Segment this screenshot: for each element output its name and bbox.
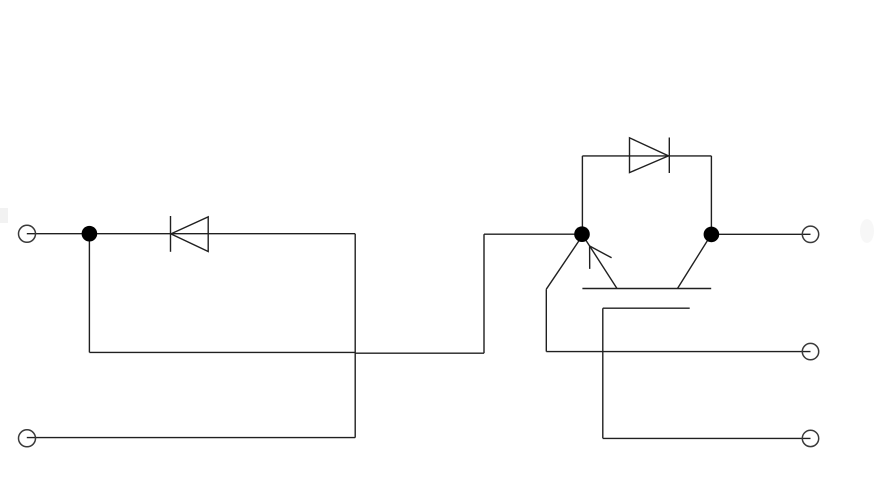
wire: top-left terminal to corner (through J1 and D1) [27, 233, 355, 235]
terminal T2 bottom-left [19, 430, 36, 447]
transistor Q1 emitter arrow [589, 246, 611, 269]
wire: lower horizontal right of crossing [355, 352, 484, 354]
wire: emitter diagonal out of J2 [546, 239, 580, 290]
terminal T4 right-middle [802, 343, 818, 359]
wire: J1 down [88, 234, 90, 353]
wire: up to IGBT emitter node [483, 234, 485, 353]
node J1 [82, 226, 98, 242]
transistor Q1 collector diagonal [678, 237, 711, 289]
wire: gate to right-bottom terminal [603, 437, 811, 439]
node J2 [574, 226, 590, 242]
diode D2 triangle [630, 138, 669, 173]
wire: right vertical of left loop [354, 234, 356, 438]
wire: emitter to right-middle terminal [546, 351, 810, 353]
wire: J2 up to top diode loop [581, 156, 583, 234]
scan smudge right edge [860, 219, 874, 243]
wire: top diode horizontal [582, 155, 711, 157]
wire: emitter vertical [545, 289, 547, 351]
wire: down to node J3 [710, 156, 712, 234]
wire: into node J2 [484, 233, 582, 235]
node J3 [704, 227, 720, 243]
transistor Q1 emitter diagonal [584, 237, 618, 289]
transistor Q1 base bar [582, 288, 711, 290]
wire: bottom-left terminal run [27, 437, 355, 439]
terminal T3 right-top [802, 226, 818, 242]
wire: lower horizontal left of crossing [89, 351, 355, 353]
diode D2 cathode bar [668, 138, 670, 174]
terminal T1 top-left [19, 225, 36, 242]
terminal T5 right-bottom [802, 430, 818, 446]
diode D1 cathode bar [170, 216, 172, 252]
wire: gate vertical [602, 308, 604, 438]
wire: J3 to right-top terminal [711, 233, 810, 235]
scan smudge top-left [0, 208, 8, 223]
diode D1 triangle [171, 217, 208, 252]
transistor Q1 gate bar [603, 307, 690, 309]
